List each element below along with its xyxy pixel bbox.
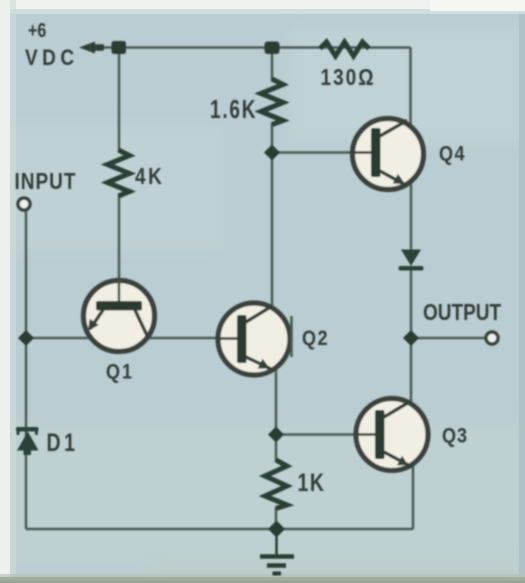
svg-text:Q4: Q4: [439, 142, 466, 166]
svg-text:D1: D1: [47, 429, 79, 457]
svg-text:130Ω: 130Ω: [321, 65, 376, 90]
svg-text:OUTPUT: OUTPUT: [423, 300, 501, 325]
svg-text:INPUT: INPUT: [15, 169, 77, 194]
svg-text:1.6K: 1.6K: [210, 94, 257, 124]
svg-text:Q2: Q2: [302, 327, 329, 351]
svg-text:+6: +6: [28, 19, 46, 41]
svg-text:1K: 1K: [298, 469, 326, 497]
svg-text:VDC: VDC: [25, 46, 79, 71]
svg-text:4K: 4K: [135, 164, 164, 189]
svg-text:Q3: Q3: [442, 424, 468, 448]
svg-text:Q1: Q1: [106, 360, 134, 384]
